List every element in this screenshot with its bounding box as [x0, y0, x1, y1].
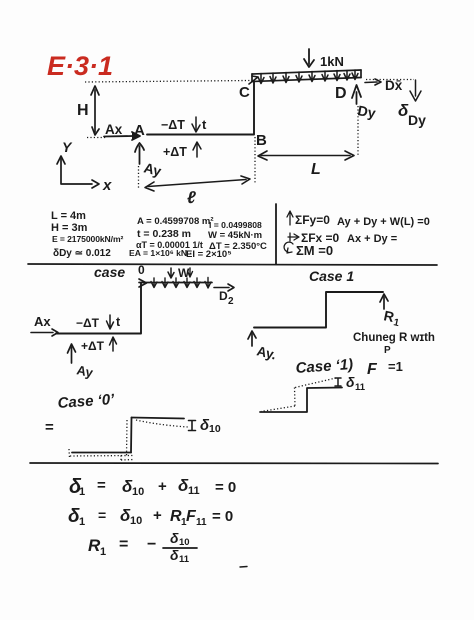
equilibrium Fx equation — [288, 233, 299, 241]
svg-text:Dy: Dy — [356, 102, 377, 121]
svg-text:αT = 0.00001 1/t: αT = 0.00001 1/t — [136, 240, 203, 250]
divider between data and equilibrium — [275, 204, 277, 264]
svg-text:10: 10 — [209, 423, 221, 435]
svg-text:Ay + Dy + W(L) =0: Ay + Dy + W(L) =0 — [337, 216, 430, 228]
horizontal divider 1 — [28, 264, 437, 265]
svg-text:ΔT = 2.350°C: ΔT = 2.350°C — [209, 241, 267, 252]
svg-text:=: = — [98, 507, 106, 523]
svg-text:Dy: Dy — [408, 112, 426, 128]
case 0 Ax arrow — [31, 329, 58, 336]
svg-text:=: = — [119, 536, 128, 553]
svg-text:δDy ≃ 0.012: δDy ≃ 0.012 — [53, 248, 111, 259]
svg-text:H = 3m: H = 3m — [51, 222, 88, 234]
svg-text:A = 0.4599708 m²: A = 0.4599708 m² — [137, 216, 214, 227]
case 1 deflected shape dotted — [261, 378, 336, 412]
case 1 reaction R1 arrow — [380, 294, 388, 309]
equilibrium M equation — [284, 242, 293, 253]
svg-text:E = 2175000kN/m²: E = 2175000kN/m² — [52, 234, 123, 244]
svg-text:1: 1 — [79, 486, 85, 498]
dimension l arrow (slanted) — [145, 176, 250, 191]
svg-text:L: L — [311, 161, 321, 178]
svg-text:= 0: = 0 — [212, 508, 233, 525]
svg-text:1: 1 — [79, 516, 85, 528]
svg-text:x: x — [102, 177, 112, 194]
member AB — [147, 134, 254, 136]
svg-text:−: − — [147, 536, 156, 553]
svg-text:E·3·1: E·3·1 — [47, 51, 113, 81]
svg-text:+ΔT: +ΔT — [163, 145, 187, 159]
small down arrow with t — [192, 117, 200, 132]
dotted reference line right of beam to deflection arrow — [366, 79, 414, 81]
svg-text:Ax + Dy =: Ax + Dy = — [347, 233, 397, 245]
svg-text:Ax: Ax — [34, 314, 51, 329]
svg-text:L = 4m: L = 4m — [51, 210, 86, 222]
dotted tick at base of H — [87, 137, 107, 139]
svg-text:A: A — [134, 122, 145, 139]
delta11 marker — [335, 378, 341, 386]
svg-text:Chuneg R wɪth: Chuneg R wɪth — [353, 332, 435, 344]
svg-text:Ay: Ay — [142, 159, 163, 179]
svg-text:10: 10 — [130, 515, 142, 527]
svg-text:t: t — [116, 315, 121, 329]
horizontal divider 2 — [30, 462, 438, 465]
dotted drop line below B — [254, 137, 256, 184]
svg-text:δ: δ — [170, 547, 179, 563]
small up arrow — [193, 142, 201, 157]
distributed load arrows on beam CD — [258, 70, 358, 84]
svg-text:+: + — [158, 478, 167, 495]
reaction Ax arrow — [104, 132, 140, 140]
delta10 marker — [189, 421, 196, 431]
svg-text:t = 0.238 m: t = 0.238 m — [137, 228, 191, 240]
coordinate axes x-y — [57, 156, 99, 188]
case 1 deflected shape solid — [260, 388, 342, 413]
svg-text:=: = — [45, 419, 54, 436]
svg-text:Ay: Ay — [75, 362, 95, 380]
case 1 frame members — [254, 292, 383, 328]
svg-text:= 0: = 0 — [215, 479, 236, 496]
svg-text:ΣFy=0: ΣFy=0 — [295, 213, 330, 227]
reaction Dy arrow — [352, 85, 361, 104]
dimension H arrow — [91, 86, 99, 135]
svg-text:10: 10 — [179, 537, 190, 548]
svg-text:=1: =1 — [388, 359, 403, 374]
svg-text:11: 11 — [188, 485, 200, 497]
svg-text:1kN: 1kN — [320, 54, 344, 69]
svg-text:11: 11 — [355, 382, 366, 393]
load Dx arrow at D — [365, 79, 381, 85]
svg-text:1: 1 — [392, 317, 400, 329]
svg-text:Y: Y — [62, 139, 73, 155]
svg-text:C: C — [239, 84, 250, 101]
svg-text:10: 10 — [132, 486, 144, 498]
case 0 deflected shape dotted — [69, 420, 188, 461]
svg-text:Case ‘1): Case ‘1) — [295, 356, 354, 377]
svg-text:−ΔT: −ΔT — [76, 316, 100, 330]
svg-text:F: F — [367, 361, 378, 378]
reaction Ay arrow — [135, 143, 144, 164]
svg-text:1: 1 — [100, 546, 106, 558]
fraction bar — [163, 547, 197, 549]
case 1 reaction Ay arrow — [248, 331, 256, 346]
svg-text:Ax: Ax — [105, 122, 123, 137]
stray dash bottom — [240, 566, 247, 569]
svg-text:δ: δ — [170, 530, 179, 546]
svg-text:Case ‘0’: Case ‘0’ — [57, 391, 116, 412]
svg-text:I = 0.0499808: I = 0.0499808 — [209, 220, 262, 230]
case 0 frame members — [56, 283, 141, 334]
svg-text:−ΔT: −ΔT — [161, 118, 185, 132]
dotted drop line below A — [138, 166, 140, 189]
dotted reference line at beam level — [85, 81, 250, 83]
case 0 deflected shape solid — [72, 418, 184, 453]
svg-text:δ: δ — [346, 374, 355, 390]
svg-text:P: P — [384, 345, 391, 356]
deflection pointer at Dx — [410, 80, 421, 101]
svg-text:D: D — [219, 289, 228, 303]
case 0 reaction Ay arrow — [68, 344, 76, 363]
svg-text:B: B — [256, 132, 267, 149]
case 0 distributed load arrows — [151, 278, 211, 289]
svg-text:+ΔT: +ΔT — [81, 339, 105, 353]
member BC — [253, 82, 255, 134]
svg-text:W = 45kN·m: W = 45kN·m — [208, 230, 262, 241]
svg-text:Ay.: Ay. — [255, 343, 278, 362]
svg-text:ℓ: ℓ — [187, 188, 196, 207]
big load arrow 1kN — [304, 49, 314, 67]
support tick at C — [249, 76, 258, 84]
svg-text:Case 1: Case 1 — [309, 268, 354, 284]
svg-text:+: + — [153, 507, 162, 524]
svg-text:11: 11 — [179, 554, 190, 565]
svg-text:t: t — [202, 117, 207, 132]
dimension L arrow — [258, 151, 354, 160]
case 0 beam — [139, 279, 212, 287]
svg-text:D: D — [335, 85, 347, 102]
svg-text:0: 0 — [138, 263, 145, 277]
load W label case 0 — [168, 268, 174, 278]
svg-text:11: 11 — [196, 517, 207, 528]
svg-text:2: 2 — [228, 296, 234, 307]
case 0 reaction Dx arrow — [214, 284, 234, 291]
svg-text:Dx̄: Dx̄ — [385, 78, 403, 93]
beam CD outline — [252, 70, 361, 82]
equilibrium Fy equation — [287, 211, 293, 225]
dotted drop line below D — [357, 106, 359, 157]
svg-text:=: = — [97, 477, 106, 494]
svg-text:H: H — [77, 102, 89, 119]
svg-text:ΣM =0: ΣM =0 — [296, 243, 333, 258]
svg-text:case: case — [94, 264, 125, 280]
